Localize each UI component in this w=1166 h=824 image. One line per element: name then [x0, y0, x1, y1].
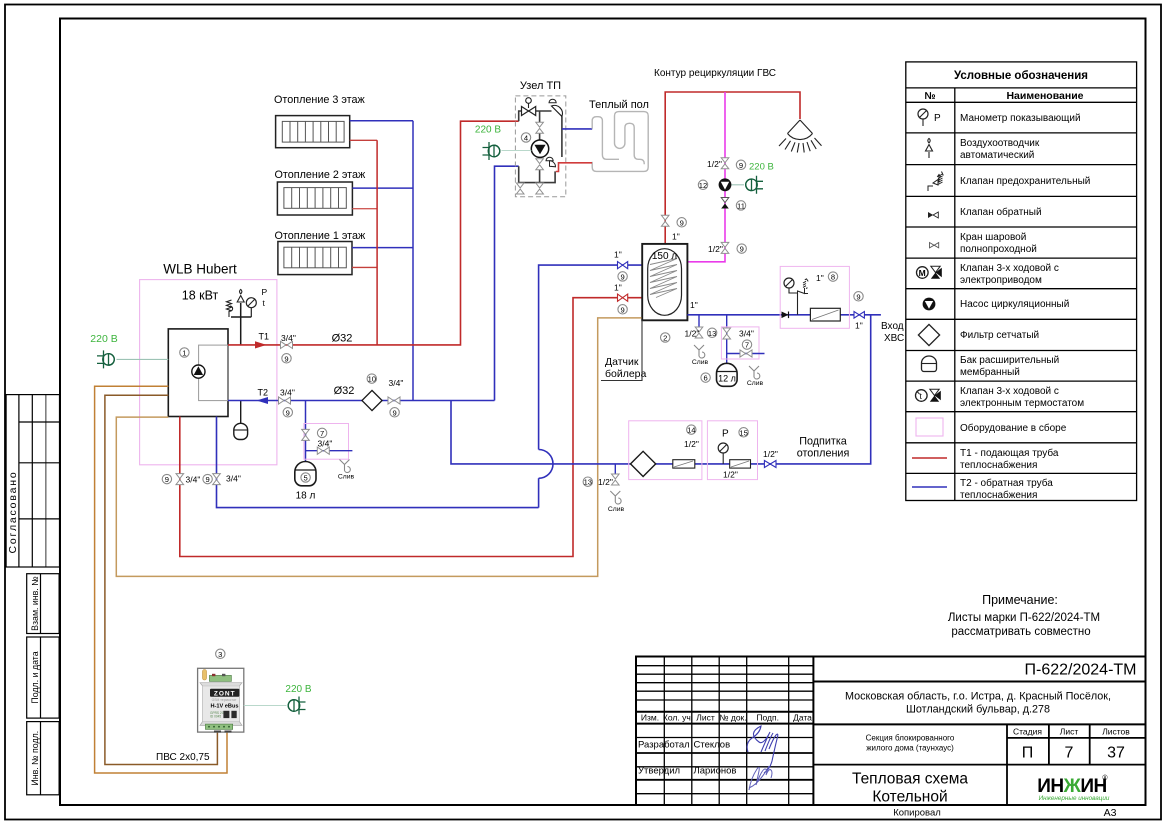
svg-text:Листы марки П-622/2024-ТМ: Листы марки П-622/2024-ТМ — [948, 612, 1100, 624]
drain symbol vessel5 — [340, 460, 351, 473]
boiler pump — [192, 365, 205, 378]
circle 9d — [162, 474, 171, 484]
label Взам. инв. № — [30, 576, 40, 631]
svg-text:Узел ТП: Узел ТП — [520, 80, 561, 92]
svg-text:П: П — [1022, 745, 1034, 762]
title block stage header — [1013, 727, 1130, 737]
valve V9g on recirc — [721, 158, 729, 169]
svg-text:Примечание:: Примечание: — [982, 593, 1058, 607]
svg-text:Слив: Слив — [338, 474, 355, 481]
circle 9j — [618, 305, 627, 315]
svg-text:8: 8 — [831, 273, 835, 282]
svg-text:Клапан 3-х ходовой с: Клапан 3-х ходовой с — [960, 386, 1059, 397]
filter 14 — [631, 451, 656, 476]
legend table grid — [906, 62, 1137, 501]
title block row line B — [813, 723, 1145, 725]
branch 7b drain — [727, 353, 765, 355]
label Слив 13b — [608, 506, 625, 513]
floor heating serpentine — [592, 112, 648, 172]
svg-text:А3: А3 — [1104, 807, 1117, 819]
svg-text:бойлера: бойлера — [605, 368, 647, 380]
label 3/4 red drain — [186, 475, 201, 485]
svg-text:Контур рециркуляции ГВС: Контур рециркуляции ГВС — [654, 68, 776, 79]
legend title — [954, 70, 1088, 82]
circle 11 — [736, 201, 745, 211]
wire boiler drain blue — [217, 265, 651, 508]
svg-text:T2: T2 — [258, 388, 269, 398]
svg-text:14: 14 — [687, 426, 695, 435]
label Датчик бойлера — [601, 320, 647, 380]
label Подпитка отопления — [797, 436, 850, 460]
svg-text:рассматривать совместно: рассматривать совместно — [951, 626, 1090, 638]
svg-text:7: 7 — [1065, 745, 1074, 762]
label 1inch box8 — [816, 273, 824, 283]
valve V9f on GVS red — [661, 215, 669, 226]
svg-text:Бак расширительный: Бак расширительный — [960, 355, 1059, 366]
wire zont 1 outer — [95, 386, 227, 773]
label 220 В zont — [285, 684, 311, 695]
label Теплый пол — [589, 99, 649, 111]
svg-text:Шотландский бульвар, д.278: Шотландский бульвар, д.278 — [906, 704, 1050, 716]
label Слив 13a — [692, 359, 709, 366]
label Согласовано — [7, 471, 19, 554]
svg-text:3/4": 3/4" — [739, 329, 754, 339]
svg-text:Взам. инв. №: Взам. инв. № — [30, 576, 40, 631]
wire sensor tan — [116, 318, 641, 577]
svg-text:3/4": 3/4" — [389, 378, 404, 388]
svg-text:Слив: Слив — [692, 359, 709, 366]
svg-text:T1: T1 — [259, 332, 270, 342]
svg-text:Листов: Листов — [1102, 727, 1130, 737]
valve V9c on T2 — [388, 397, 400, 404]
boiler U1 box — [168, 329, 228, 417]
svg-text:3/4": 3/4" — [226, 474, 241, 484]
svg-text:1/2": 1/2" — [763, 449, 778, 459]
box15 manometer — [718, 443, 728, 464]
label Копировал — [893, 808, 941, 819]
radiator floor3 — [276, 116, 350, 148]
label 1/2 13b — [598, 477, 613, 487]
svg-text:Наименование: Наименование — [1006, 90, 1083, 102]
svg-text:9: 9 — [856, 292, 860, 301]
label Вход ХВС — [881, 321, 904, 344]
drain branch 13a — [698, 315, 700, 327]
svg-text:Кран шаровой: Кран шаровой — [960, 232, 1026, 243]
svg-text:ID 0045: ID 0045 — [210, 715, 221, 719]
T1 flow arrow — [255, 341, 267, 348]
wire rad2 return tap red — [352, 208, 377, 210]
expansion tank 12l — [717, 363, 738, 386]
wire floor supply blue — [562, 128, 592, 130]
T2 flow arrow — [257, 397, 269, 404]
label 1/2 13a — [685, 329, 700, 339]
svg-text:Ø32: Ø32 — [334, 385, 355, 397]
svg-text:Условные обозначения: Условные обозначения — [954, 70, 1088, 82]
valve V9a on T1 — [281, 341, 293, 348]
svg-text:электронным термостатом: электронным термостатом — [960, 398, 1084, 409]
svg-text:3/4": 3/4" — [318, 439, 333, 449]
svg-text:GSM термостат: GSM термостат — [212, 698, 237, 702]
svg-text:Инженерные инновации: Инженерные инновации — [1039, 795, 1110, 802]
valve 7b — [723, 328, 731, 339]
label Отопление 3 этаж — [274, 94, 365, 106]
blue crossing hop — [539, 450, 553, 479]
svg-text:2: 2 — [663, 334, 667, 343]
wire rad3 return tap red — [350, 139, 377, 141]
svg-text:жилого дома (таунхаус): жилого дома (таунхаус) — [866, 744, 954, 753]
svg-text:Оборудование в сборе: Оборудование в сборе — [960, 422, 1067, 434]
label T2 — [258, 388, 269, 398]
wire rad1 return tap red — [352, 266, 377, 268]
box8 check valve — [782, 312, 789, 319]
svg-text:7: 7 — [320, 429, 324, 438]
svg-text:37: 37 — [1107, 745, 1125, 762]
valve V9h on recirc — [721, 242, 729, 253]
signature 1 — [747, 726, 778, 773]
label 3/4 7b — [739, 329, 754, 339]
label 1inch inlet — [855, 321, 863, 331]
drain branch 13b — [614, 464, 616, 474]
label 3/4 blue drain — [226, 474, 241, 484]
circle 3 — [216, 649, 225, 659]
box8 gauge stem — [789, 288, 798, 315]
left stamp table top block — [6, 395, 59, 567]
circle 9b — [283, 408, 292, 418]
legend texts — [960, 113, 1090, 501]
svg-text:1/2": 1/2" — [598, 477, 613, 487]
label 12 л — [718, 374, 736, 384]
label 3/4 T1 — [281, 333, 296, 343]
svg-text:Дата: Дата — [793, 713, 812, 723]
svg-text:18 л: 18 л — [296, 491, 316, 502]
wire power zont — [244, 705, 287, 707]
svg-text:Подпитка: Подпитка — [799, 436, 847, 448]
valve V9d red drain — [176, 474, 184, 485]
svg-text:автоматический: автоматический — [960, 150, 1034, 161]
valve V9e blue drain — [213, 474, 221, 485]
box15 meter — [730, 460, 751, 468]
circle 9a — [282, 354, 291, 364]
label 1inch tank out — [690, 300, 698, 310]
valve V9b on T2 — [279, 397, 291, 404]
svg-text:9: 9 — [284, 354, 288, 363]
wire T1 red main — [228, 121, 519, 345]
svg-text:1/2": 1/2" — [684, 439, 699, 449]
svg-text:Клапан 3-х ходовой с: Клапан 3-х ходовой с — [960, 263, 1059, 274]
legend symbol T1 red line — [912, 457, 947, 459]
title block section cell — [866, 734, 955, 753]
uzel drain valve mid — [536, 183, 544, 194]
label 3/4 T2 — [280, 388, 295, 398]
drain symbol 7b — [749, 366, 760, 379]
branch 12l tank — [726, 315, 728, 364]
label А3 — [1104, 807, 1117, 819]
label Ø32 T1 — [332, 333, 353, 345]
svg-text:Московская область, г.о. Истра: Московская область, г.о. Истра, д. Красн… — [845, 691, 1111, 703]
svg-text:1/2": 1/2" — [723, 470, 738, 480]
wire power to pump12 — [732, 184, 745, 186]
wire GVS hot top — [665, 92, 800, 244]
legend symbol pump — [923, 298, 936, 311]
circle 9e — [203, 474, 212, 484]
radiator floor1 — [278, 242, 352, 275]
label Подл. и дата — [30, 651, 40, 703]
circle 12 — [698, 180, 707, 190]
valve makeup half — [764, 461, 776, 468]
box8 safety valve — [798, 279, 809, 296]
svg-text:H-1V eBus: H-1V eBus — [211, 704, 239, 710]
legend symbol 3way thermostat valve — [916, 389, 941, 402]
label Отопление 2 этаж — [275, 169, 366, 181]
title block row line A — [813, 681, 1145, 683]
svg-text:№: № — [924, 91, 935, 102]
circle 13a — [707, 328, 716, 338]
valve 13b — [612, 474, 620, 485]
uzel TP dashed box — [515, 96, 565, 197]
label 3/4 after filter — [389, 378, 404, 388]
label 18 кВт — [182, 289, 219, 303]
svg-text:ИНЖИН: ИНЖИН — [1037, 776, 1106, 797]
svg-text:Кол. уч.: Кол. уч. — [663, 713, 693, 723]
title block names — [638, 740, 736, 777]
svg-text:5: 5 — [303, 474, 307, 483]
legend symbol check valve — [928, 212, 938, 218]
valve tank left blue — [618, 262, 628, 269]
svg-text:9: 9 — [286, 408, 290, 417]
svg-text:Стадия: Стадия — [1013, 727, 1042, 737]
svg-text:Клапан обратный: Клапан обратный — [960, 206, 1042, 218]
wire recirculation magenta — [687, 92, 725, 262]
svg-text:теплоснабжения: теплоснабжения — [960, 459, 1037, 471]
svg-text:Клапан предохранительный: Клапан предохранительный — [960, 176, 1090, 187]
svg-text:12: 12 — [699, 181, 707, 190]
DHW tank 150l — [642, 244, 687, 320]
label 220 В boiler — [90, 333, 117, 345]
svg-text:9: 9 — [392, 408, 396, 417]
expansion vessel stem — [240, 400, 242, 423]
circle 9i — [618, 272, 627, 282]
pink box 7b — [721, 327, 759, 359]
svg-text:1": 1" — [672, 232, 680, 242]
svg-text:4: 4 — [524, 134, 528, 143]
wire radiator blue riser — [412, 121, 414, 401]
svg-text:Теплый пол: Теплый пол — [589, 99, 649, 111]
label ПВС 2x0,75 — [156, 752, 210, 763]
svg-text:Котельной: Котельной — [872, 789, 947, 806]
wire rad3 supply tap blue — [350, 120, 413, 122]
svg-text:Вход: Вход — [881, 321, 904, 332]
svg-text:220 В: 220 В — [475, 125, 501, 136]
expansion tank 18l — [295, 462, 316, 486]
svg-text:Отопление 3 этаж: Отопление 3 этаж — [274, 94, 365, 106]
tank coil — [650, 259, 677, 298]
svg-text:Фильтр сетчатый: Фильтр сетчатый — [960, 330, 1039, 341]
wire boiler drain red — [180, 298, 656, 557]
label 1inch GVS — [672, 232, 680, 242]
circle 10 — [367, 374, 376, 384]
svg-text:220 В: 220 В — [90, 333, 117, 345]
shower head — [779, 120, 822, 153]
uzel check valve top — [549, 99, 562, 116]
signature 2 — [749, 766, 772, 790]
title block stage values — [1022, 745, 1125, 762]
wire power to uzel pump — [502, 150, 532, 152]
svg-text:1": 1" — [614, 250, 622, 260]
note Примечание — [948, 593, 1100, 638]
svg-text:электроприводом: электроприводом — [960, 275, 1042, 286]
svg-text:3/4": 3/4" — [280, 388, 295, 398]
circle 4 — [521, 133, 530, 143]
label Инв. № подл. — [30, 731, 40, 786]
legend symbol air vent — [926, 138, 933, 158]
wire makeup vertical — [451, 315, 871, 464]
title block drawing name — [852, 771, 968, 806]
svg-text:1/2": 1/2" — [707, 159, 722, 169]
svg-text:1/2": 1/2" — [708, 244, 723, 254]
circle 15 — [739, 428, 748, 438]
svg-text:®: ® — [1102, 774, 1108, 782]
svg-text:Ø32: Ø32 — [332, 333, 353, 345]
wire rad2 supply tap blue — [352, 187, 413, 189]
legend symbol filter — [918, 324, 939, 345]
svg-text:Ларионов: Ларионов — [694, 766, 737, 777]
svg-text:мембранный: мембранный — [960, 366, 1020, 378]
wire uzel red out jog — [556, 163, 592, 172]
wire power to boiler — [117, 358, 169, 360]
label P t — [262, 287, 268, 308]
label 220 В uzel — [475, 125, 501, 136]
legend header — [924, 90, 1083, 102]
svg-text:полнопроходной: полнопроходной — [960, 244, 1037, 255]
legend symbol expansion tank — [922, 356, 937, 372]
label Узел ТП — [520, 80, 561, 92]
svg-text:Воздухоотводчик: Воздухоотводчик — [960, 138, 1040, 149]
circle 9c — [390, 408, 399, 418]
svg-text:Разработал: Разработал — [638, 740, 690, 751]
svg-text:1": 1" — [614, 283, 622, 293]
svg-text:№ док.: № док. — [719, 713, 746, 723]
svg-text:11: 11 — [737, 201, 745, 210]
left stamp blocks bottom — [27, 574, 59, 795]
manometer on boiler — [246, 298, 256, 317]
svg-text:150 л: 150 л — [652, 251, 677, 262]
title block address — [845, 691, 1111, 716]
uzel valve lower — [536, 159, 544, 170]
svg-text:3: 3 — [218, 650, 222, 659]
uzel valve upper — [536, 122, 544, 133]
uzel drain valve left — [516, 183, 524, 194]
uzel 3way valve — [522, 98, 536, 116]
svg-text:Изм.: Изм. — [641, 713, 659, 723]
radiator floor2 — [277, 182, 352, 215]
svg-text:Датчик: Датчик — [605, 356, 639, 368]
svg-text:3/4": 3/4" — [281, 333, 296, 343]
circle 7a — [317, 428, 326, 438]
power plug zont — [288, 697, 305, 715]
svg-text:Утвердил: Утвердил — [638, 766, 680, 777]
title block left grid — [636, 657, 813, 806]
legend symbol safety valve — [928, 172, 943, 192]
svg-text:ПВС 2x0,75: ПВС 2x0,75 — [156, 752, 210, 763]
svg-text:Подп.: Подп. — [756, 713, 779, 723]
drain symbol 13b — [610, 491, 621, 504]
svg-text:Слив: Слив — [608, 506, 625, 513]
svg-text:Подл. и дата: Подл. и дата — [30, 651, 40, 703]
wire radiator red riser — [376, 140, 378, 345]
safety valve on boiler — [227, 300, 233, 317]
valve vessel5 drain — [317, 447, 329, 454]
svg-text:П-622/2024-ТМ: П-622/2024-ТМ — [1025, 662, 1137, 679]
svg-text:18 кВт: 18 кВт — [182, 289, 219, 303]
power plug boiler — [97, 350, 114, 368]
wire T2 vertical to uzel — [495, 166, 519, 400]
circle 9f — [677, 218, 686, 228]
svg-text:9: 9 — [680, 218, 684, 227]
circle 5 — [301, 473, 310, 483]
svg-text:Р: Р — [934, 113, 941, 124]
drain symbol 13a — [694, 345, 705, 358]
label 220 В recirc — [749, 162, 774, 173]
check valve 11 — [721, 198, 729, 209]
label Слив vessel5 — [338, 474, 355, 481]
label 1/2 recirc top — [707, 159, 722, 169]
power plug uzel — [483, 142, 500, 160]
title block doc number — [1025, 662, 1137, 679]
svg-text:Манометр показывающий: Манометр показывающий — [960, 113, 1081, 124]
title block stage grid — [813, 724, 1145, 805]
circle 1 — [180, 348, 189, 358]
svg-text:P: P — [262, 287, 268, 297]
svg-text:3/4": 3/4" — [186, 475, 201, 485]
svg-text:WLB Hubert: WLB Hubert — [163, 262, 237, 277]
circle 7b — [742, 340, 751, 350]
expansion vessel on boiler — [234, 423, 248, 439]
svg-text:Тепловая схема: Тепловая схема — [852, 771, 968, 788]
power plug recirc — [746, 176, 763, 194]
logo INZHIN — [1037, 774, 1110, 802]
label 1inch tank hot left — [614, 283, 622, 293]
title block header labels — [641, 713, 812, 723]
vessel5 pink box — [304, 424, 349, 460]
svg-text:М: М — [919, 268, 926, 278]
pink box 8 — [780, 266, 849, 328]
svg-text:Стеклов: Стеклов — [694, 740, 731, 751]
filter F10 on T2 — [362, 390, 382, 410]
legend symbol manometer — [918, 109, 941, 126]
svg-text:9: 9 — [165, 475, 169, 484]
svg-text:9: 9 — [620, 272, 624, 281]
svg-text:Лист: Лист — [696, 713, 715, 723]
svg-text:Лист: Лист — [1060, 727, 1079, 737]
legend symbol assembled equipment pink box — [916, 418, 943, 436]
uzel dome lower — [546, 157, 556, 167]
svg-text:1": 1" — [855, 321, 863, 331]
vessel5 drain branch — [306, 450, 353, 452]
svg-text:6: 6 — [703, 374, 707, 383]
label 1/2 box15 — [723, 470, 738, 480]
svg-text:1": 1" — [816, 273, 824, 283]
uzel pump — [531, 140, 548, 157]
legend symbol T2 blue line — [912, 486, 947, 488]
legend symbol 3way motor valve — [917, 266, 942, 279]
svg-text:ZONT: ZONT — [214, 691, 236, 698]
label P box15 — [722, 429, 729, 440]
label Ø32 T2 — [334, 385, 355, 397]
circle 9h — [737, 244, 746, 254]
svg-text:1": 1" — [690, 300, 698, 310]
svg-text:13: 13 — [708, 329, 716, 338]
valve V7a — [302, 429, 310, 440]
